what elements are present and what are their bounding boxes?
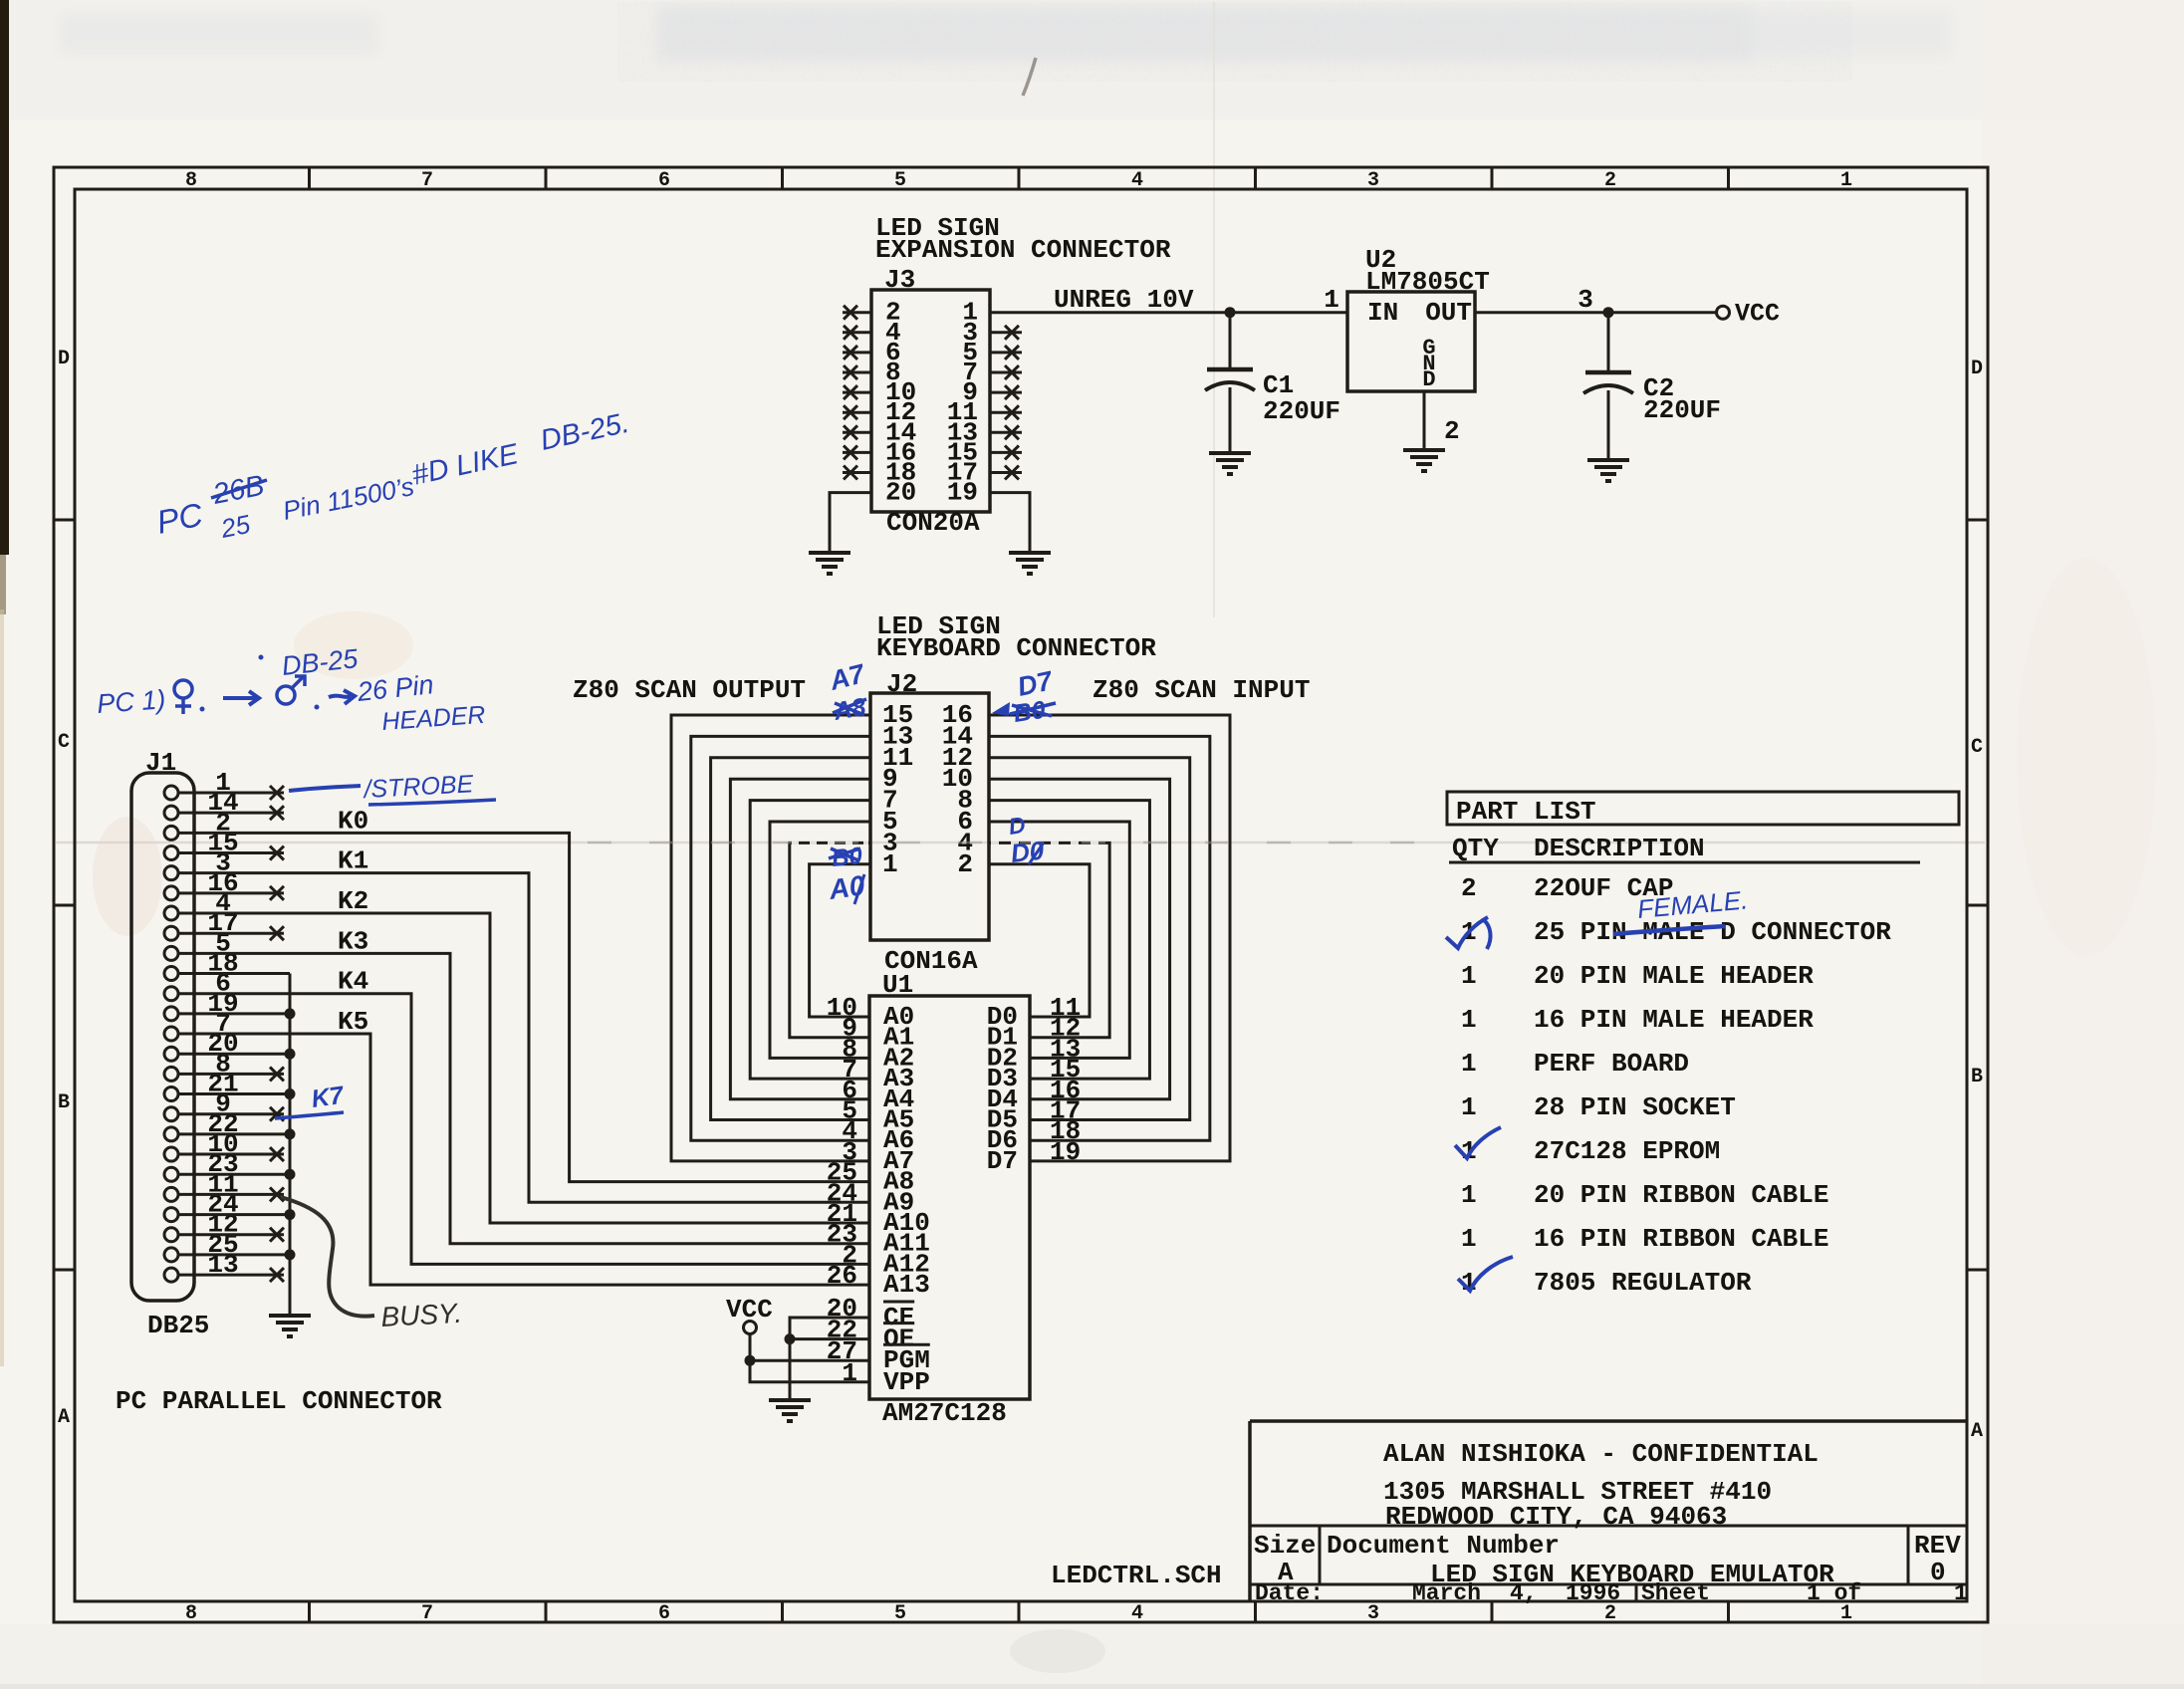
handwritten note: BUSY on J1 pin11 <box>281 1197 463 1332</box>
svg-text:BUSY.: BUSY. <box>380 1298 463 1332</box>
svg-text:Z80 SCAN OUTPUT: Z80 SCAN OUTPUT <box>573 675 806 705</box>
svg-text:LEDCTRL.SCH: LEDCTRL.SCH <box>1051 1561 1222 1590</box>
handwritten note: D0 at J2 pin 4 <box>1009 836 1046 868</box>
svg-text:Size: Size <box>1254 1531 1316 1561</box>
svg-text:7: 7 <box>421 1602 433 1625</box>
EPROM U1 AM27C128 <box>827 970 1081 1428</box>
ground (U1 CE/OE) <box>769 1400 811 1421</box>
ground bus from J1 pin 18 <box>178 974 296 1316</box>
node VCC terminal <box>1717 306 1730 319</box>
svg-text:1996: 1996 <box>1566 1580 1620 1606</box>
junction VCC/PGM <box>745 1355 756 1366</box>
handwritten note: K7 on J1 pin9 <box>275 1082 347 1118</box>
J3 no-connect pins left (X marks) <box>843 306 871 480</box>
wire J2 pin15 to U1 A7 <box>671 715 870 1161</box>
svg-text:1: 1 <box>1461 961 1477 991</box>
svg-text:QTY: QTY <box>1452 834 1499 863</box>
svg-text:PART LIST: PART LIST <box>1456 797 1595 827</box>
capacitor C2 220UF <box>1583 313 1721 460</box>
svg-text:PC 1): PC 1) <box>96 684 166 719</box>
svg-text:1: 1 <box>1324 285 1339 315</box>
J1 pin circles <box>164 786 178 1282</box>
handwritten note: A0 at J2 pin1 <box>827 869 867 905</box>
part list table <box>1447 792 1959 1298</box>
wire J1 pin7 K5 to U1 A13 <box>178 1034 869 1285</box>
svg-text:1: 1 <box>1461 1180 1477 1210</box>
svg-text:D0: D0 <box>1009 836 1046 868</box>
ground (C1) <box>1209 453 1251 474</box>
wire J2 pin16 to U1 D7 <box>989 715 1230 1161</box>
svg-text:March: March <box>1412 1580 1481 1606</box>
svg-text:2: 2 <box>1461 873 1477 903</box>
handwritten note: crossed B0 at J2 pin1 <box>829 843 864 872</box>
svg-text:IN: IN <box>1367 298 1398 328</box>
svg-text:20: 20 <box>885 478 916 508</box>
svg-text:B: B <box>1971 1066 1983 1088</box>
capacitor C1 220UF <box>1205 313 1340 453</box>
wire J2 pin9 to U1 A4 <box>730 779 870 1099</box>
svg-text:1 of: 1 of <box>1807 1580 1861 1606</box>
wire J2 pin8 to U1 D3 <box>989 801 1149 1080</box>
svg-text:VCC: VCC <box>1735 300 1780 329</box>
svg-text:220UF: 220UF <box>1643 395 1721 425</box>
svg-text:5: 5 <box>894 169 906 192</box>
wire J1 pin6 K4 to U1 A12 <box>178 994 869 1265</box>
svg-text:D: D <box>1971 358 1983 380</box>
ground (C2) <box>1587 460 1629 481</box>
wire VCC to PGM and VPP <box>750 1334 869 1382</box>
svg-text:ALAN NISHIOKA - CONFIDENTIAL: ALAN NISHIOKA - CONFIDENTIAL <box>1383 1439 1819 1469</box>
svg-text:28 PIN SOCKET: 28 PIN SOCKET <box>1534 1092 1736 1122</box>
svg-text:UNREG 10V: UNREG 10V <box>1054 285 1194 315</box>
svg-text:A: A <box>58 1406 70 1429</box>
svg-text:AM27C128: AM27C128 <box>882 1398 1007 1428</box>
ground (U2 pin 2) <box>1403 450 1445 471</box>
junction CE/OE <box>785 1333 796 1344</box>
svg-text:DESCRIPTION: DESCRIPTION <box>1534 834 1705 863</box>
svg-text:0: 0 <box>1930 1558 1946 1587</box>
svg-text:25: 25 <box>217 509 253 544</box>
handwritten note: /STROBE on J1 pin1 <box>289 770 496 805</box>
connector J2 (CON16A) <box>870 669 989 976</box>
svg-text:LED SIGN KEYBOARD EMULATOR: LED SIGN KEYBOARD EMULATOR <box>1430 1560 1834 1589</box>
svg-text:REDWOOD CITY, CA 94063: REDWOOD CITY, CA 94063 <box>1385 1502 1727 1532</box>
wire J1 pin3 K1 to U1 A9 <box>178 873 869 1203</box>
svg-text:5: 5 <box>894 1602 906 1625</box>
svg-text:7805 REGULATOR: 7805 REGULATOR <box>1534 1268 1752 1298</box>
svg-text:1: 1 <box>1840 169 1852 192</box>
svg-text:B: B <box>58 1091 70 1114</box>
svg-text:1: 1 <box>1461 1092 1477 1122</box>
svg-text:A: A <box>1971 1420 1983 1443</box>
J1 pin number labels <box>207 768 238 1280</box>
svg-text:3: 3 <box>1577 285 1593 315</box>
svg-text:6: 6 <box>658 1602 670 1625</box>
svg-text:K7: K7 <box>310 1082 347 1113</box>
svg-text:1: 1 <box>882 849 898 879</box>
wire J2 pin3 to U1 A1 <box>790 843 870 1037</box>
J1 no-connect pins (X marks) <box>178 786 284 1282</box>
ground (J1 bus) <box>269 1316 311 1336</box>
svg-text:27C128 EPROM: 27C128 EPROM <box>1534 1136 1720 1166</box>
svg-text:PERF BOARD: PERF BOARD <box>1534 1049 1689 1079</box>
junction at C2 tap <box>1603 307 1614 318</box>
svg-text:C: C <box>58 731 70 754</box>
handwritten note: PC 25 pin header like DB-25 <box>153 407 631 544</box>
svg-text:OUT: OUT <box>1425 298 1472 328</box>
svg-text:Date:: Date: <box>1255 1580 1324 1606</box>
wire J2 pin14 to U1 D6 <box>989 736 1210 1140</box>
svg-text:3: 3 <box>1367 1602 1379 1625</box>
svg-text:220UF: 220UF <box>1263 396 1340 426</box>
svg-text:16 PIN RIBBON CABLE: 16 PIN RIBBON CABLE <box>1534 1224 1828 1254</box>
svg-text:2: 2 <box>1444 416 1460 446</box>
svg-text:20 PIN MALE HEADER: 20 PIN MALE HEADER <box>1534 961 1814 991</box>
svg-text:EXPANSION CONNECTOR: EXPANSION CONNECTOR <box>875 235 1171 265</box>
regulator U2 LM7805CT <box>1324 245 1593 392</box>
handwritten checkmark: 27C128 EPROM <box>1455 1127 1501 1158</box>
wire J3 pin1 to U2 IN <box>990 311 1347 314</box>
svg-text:6: 6 <box>658 169 670 192</box>
svg-text:1: 1 <box>1954 1580 1968 1606</box>
svg-text:8: 8 <box>185 1602 197 1625</box>
svg-text:PC PARALLEL CONNECTOR: PC PARALLEL CONNECTOR <box>116 1386 442 1416</box>
paper crease <box>588 842 1449 844</box>
handwritten note: crossed D0 arrow at J2 right <box>992 696 1056 728</box>
svg-text:C: C <box>1971 736 1983 759</box>
wire J1 pin5 K3 to U1 A11 <box>178 953 869 1243</box>
svg-text:7: 7 <box>421 169 433 192</box>
wire J2 pin13 to U1 A6 <box>691 736 870 1140</box>
wire J2 pin2 to U1 D0 <box>989 864 1090 1017</box>
wire U2 GND pin 2 <box>1423 391 1426 450</box>
handwritten note: FEMALE correction in part list <box>1613 884 1749 934</box>
svg-text:D: D <box>1422 367 1435 392</box>
ground (J3 pin20) <box>809 553 850 574</box>
wire J2 pin11 to U1 A5 <box>711 758 870 1120</box>
connector J1 (DB25) shell <box>131 748 209 1340</box>
connector J3 (CON20A) <box>871 265 990 538</box>
handwritten note: crossed A8 at J2 <box>831 693 867 726</box>
svg-text:KEYBOARD CONNECTOR: KEYBOARD CONNECTOR <box>876 633 1156 663</box>
handwritten checkmark: 7805 REGULATOR <box>1458 1257 1513 1291</box>
svg-text:DB25: DB25 <box>147 1311 209 1340</box>
svg-text:D: D <box>58 348 70 370</box>
junction at C1 tap <box>1225 307 1236 318</box>
svg-text:D7: D7 <box>987 1146 1018 1176</box>
svg-text:20 PIN RIBBON CABLE: 20 PIN RIBBON CABLE <box>1534 1180 1828 1210</box>
svg-text:A13: A13 <box>883 1270 930 1300</box>
ground (J3 pin19) <box>1009 553 1051 574</box>
svg-text:2: 2 <box>1604 169 1616 192</box>
svg-text:16 PIN MALE HEADER: 16 PIN MALE HEADER <box>1534 1005 1814 1035</box>
svg-text:Document Number: Document Number <box>1327 1531 1560 1561</box>
wire J2 pin6 to U1 D2 <box>989 822 1129 1058</box>
svg-text:4: 4 <box>1131 1602 1143 1625</box>
svg-text:8: 8 <box>185 169 197 192</box>
wire J2 pin7 to U1 A3 <box>750 801 870 1080</box>
svg-text:CON20A: CON20A <box>886 508 980 538</box>
title block <box>1250 1421 1968 1606</box>
wire J2 pin1 to U1 A0 <box>810 864 870 1017</box>
svg-text:VPP: VPP <box>883 1367 930 1397</box>
wire U2 OUT to VCC terminal <box>1475 311 1716 314</box>
wire CE/OE to ground <box>790 1318 869 1400</box>
svg-text:1: 1 <box>1461 1224 1477 1254</box>
wire J3 pin20 to ground <box>830 493 871 553</box>
svg-text:19: 19 <box>947 478 978 508</box>
handwritten note: PC female to male to 26 pin header <box>96 669 486 736</box>
wire J2 pin5 to U1 A2 <box>770 822 870 1058</box>
wire J2 pin4 to U1 D1 <box>989 843 1109 1037</box>
svg-text:1: 1 <box>1461 1049 1477 1079</box>
svg-text:REV: REV <box>1914 1531 1961 1561</box>
J3 no-connect pins right (X marks) <box>990 326 1022 480</box>
wire J2 pin10 to U1 D4 <box>989 779 1170 1099</box>
svg-text:3: 3 <box>1367 169 1379 192</box>
svg-text:1: 1 <box>1461 1005 1477 1035</box>
wire J3 pin19 to ground <box>990 493 1030 553</box>
wire J2 pin12 to U1 D5 <box>989 758 1190 1120</box>
wire J1 pin4 K2 to U1 A10 <box>178 913 869 1223</box>
svg-text:25 PIN MALE D CONNECTOR: 25 PIN MALE D CONNECTOR <box>1534 917 1891 947</box>
svg-text:4,: 4, <box>1510 1580 1538 1606</box>
handwritten checkmark: 25 pin connector <box>1446 917 1491 949</box>
svg-text:Sheet: Sheet <box>1641 1580 1710 1606</box>
svg-text:2: 2 <box>957 849 973 879</box>
svg-text:/STROBE: /STROBE <box>362 770 474 804</box>
svg-text:Z80 SCAN INPUT: Z80 SCAN INPUT <box>1092 675 1310 705</box>
svg-text:4: 4 <box>1131 169 1143 192</box>
wire J1 pin2 K0 to U1 A8 <box>178 833 869 1181</box>
